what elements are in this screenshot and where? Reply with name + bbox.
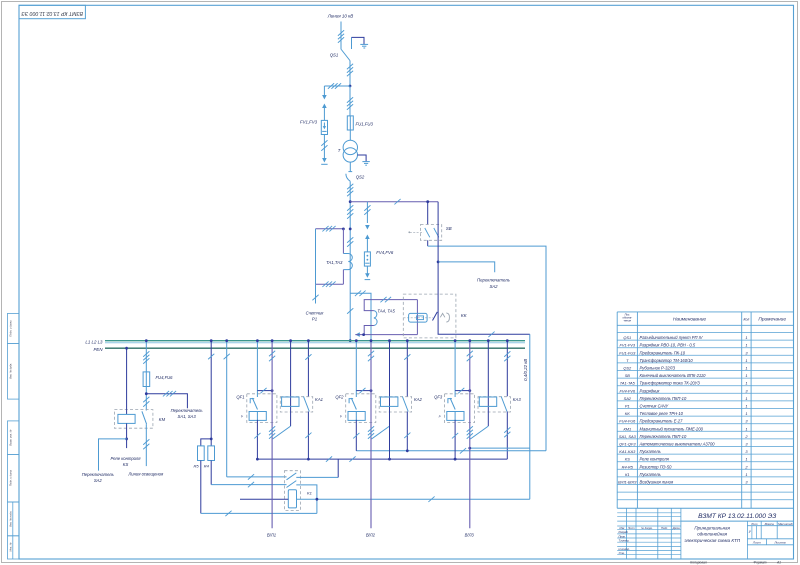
svg-text:QF1: QF1 (236, 395, 244, 400)
svg-text:Конечный выключатель ВПК-2110: Конечный выключатель ВПК-2110 (640, 373, 707, 378)
svg-text:Примечание: Примечание (758, 317, 786, 323)
svg-text:Листов: Листов (773, 541, 786, 545)
svg-text:SA1, SA3: SA1, SA3 (619, 434, 637, 439)
svg-text:В/Л3: В/Л3 (465, 533, 475, 538)
svg-text:К1: К1 (625, 472, 629, 477)
svg-text:Подп.: Подп. (661, 526, 668, 530)
svg-text:QS2: QS2 (356, 175, 365, 180)
svg-text:Подп. и дата: Подп. и дата (8, 469, 12, 486)
svg-text:В/Л2: В/Л2 (366, 533, 376, 538)
svg-text:1: 1 (745, 366, 747, 371)
svg-text:Реле контроля: Реле контроля (640, 457, 670, 462)
svg-text:Переключатель: Переключатель (477, 278, 511, 283)
svg-text:Трансформатор тока ТК-20УЗ: Трансформатор тока ТК-20УЗ (640, 381, 701, 386)
svg-text:Предохранитель Е-27: Предохранитель Е-27 (640, 419, 684, 424)
svg-text:SA2: SA2 (94, 478, 103, 483)
svg-text:1: 1 (745, 457, 747, 462)
svg-text:Разрядник: Разрядник (640, 388, 661, 393)
svg-text:KM: KM (159, 417, 166, 422)
svg-text:1: 1 (745, 343, 747, 348)
svg-text:Пускатель: Пускатель (640, 472, 661, 477)
svg-text:1: 1 (745, 381, 747, 386)
svg-text:Подп. и дата: Подп. и дата (8, 320, 12, 337)
svg-text:Переключатель ПКП-10: Переключатель ПКП-10 (640, 434, 687, 439)
svg-text:Инв. № подл.: Инв. № подл. (8, 511, 12, 527)
svg-text:Лит: Лит (750, 522, 758, 526)
svg-text:Копировал: Копировал (690, 561, 707, 565)
svg-text:Линия освещения: Линия освещения (127, 472, 164, 477)
svg-text:KA2: KA2 (414, 397, 423, 402)
svg-text:R4: R4 (204, 464, 210, 469)
svg-text:P1: P1 (312, 317, 318, 322)
svg-text:FU1,FU3: FU1,FU3 (356, 122, 374, 127)
svg-text:KA3: KA3 (513, 397, 522, 402)
svg-text:QS1: QS1 (330, 53, 339, 58)
svg-text:Счетчик: Счетчик (306, 311, 325, 316)
svg-text:KK: KK (625, 411, 631, 416)
svg-text:Тепловое реле ТРН-10: Тепловое реле ТРН-10 (640, 411, 684, 416)
svg-text:Переключатель: Переключатель (171, 408, 203, 413)
svg-text:TA1,TA3: TA1,TA3 (326, 260, 343, 265)
svg-text:FU1-FU3: FU1-FU3 (619, 350, 636, 355)
svg-text:R5: R5 (193, 464, 199, 469)
svg-text:Воздушная линия: Воздушная линия (640, 480, 674, 485)
svg-text:КМ1: КМ1 (623, 426, 631, 431)
svg-text:L1 L2 L3: L1 L2 L3 (85, 339, 103, 344)
svg-text:Реле контроля: Реле контроля (110, 456, 141, 461)
svg-text:QF1-QF3: QF1-QF3 (619, 442, 636, 447)
svg-text:1: 1 (745, 358, 747, 363)
svg-text:чение: чение (624, 320, 632, 323)
svg-text:FV1,FV3: FV1,FV3 (300, 120, 318, 125)
svg-text:Лист: Лист (627, 526, 636, 530)
svg-text:1: 1 (745, 335, 747, 340)
svg-text:В/Л1-В/Л3: В/Л1-В/Л3 (618, 480, 637, 485)
svg-text:№ докум.: № докум. (641, 526, 653, 530)
svg-text:Разъединительный пункт РП IV: Разъединительный пункт РП IV (640, 335, 704, 340)
svg-text:1: 1 (745, 404, 747, 409)
svg-text:Резистор ПЭ-50: Резистор ПЭ-50 (640, 464, 673, 469)
svg-text:FU4,FU6: FU4,FU6 (156, 375, 174, 380)
svg-text:Разраб.: Разраб. (619, 530, 629, 534)
svg-text:KS: KS (625, 457, 631, 462)
svg-text:TA4, TA5: TA4, TA5 (377, 309, 395, 314)
svg-text:Переключатель ПКП-10: Переключатель ПКП-10 (640, 396, 687, 401)
svg-text:Изм: Изм (619, 526, 624, 530)
svg-text:T: T (338, 148, 341, 153)
svg-text:Разрядник РВО-10, РВН - 0,5: Разрядник РВО-10, РВН - 0,5 (640, 343, 696, 348)
svg-text:ВЗМТ КР 13.02.11.000 ЭЗ: ВЗМТ КР 13.02.11.000 ЭЗ (698, 513, 776, 520)
svg-text:Автоматические выключатели А37: Автоматические выключатели А3700 (639, 442, 716, 447)
svg-text:K1: K1 (307, 491, 312, 496)
svg-text:KS: KS (123, 462, 129, 467)
svg-text:FV1-FV3: FV1-FV3 (620, 343, 636, 348)
svg-text:Кол: Кол (744, 318, 750, 322)
svg-text:R4-R5: R4-R5 (622, 464, 634, 469)
svg-text:В/Л1: В/Л1 (267, 533, 276, 538)
svg-text:Т.контр.: Т.контр. (619, 539, 630, 543)
svg-text:Н.контр.: Н.контр. (619, 547, 631, 551)
svg-text:Инв. № дубл.: Инв. № дубл. (8, 363, 12, 379)
svg-text:Утв.: Утв. (619, 551, 625, 555)
svg-text:Предохранитель ПК-10: Предохранитель ПК-10 (640, 350, 686, 355)
svg-text:FU4-FU6: FU4-FU6 (619, 419, 636, 424)
svg-text:ВЗМТ КР 13.02.11.000 ЭЗ: ВЗМТ КР 13.02.11.000 ЭЗ (21, 10, 83, 16)
svg-text:TA1-TA5: TA1-TA5 (620, 381, 636, 386)
svg-text:1: 1 (745, 411, 747, 416)
svg-text:QS2: QS2 (623, 366, 632, 371)
svg-text:Масса: Масса (765, 522, 774, 526)
svg-text:SA2: SA2 (489, 284, 498, 289)
svg-text:I›: I› (241, 414, 243, 418)
svg-text:P1: P1 (625, 404, 630, 409)
svg-text:PEN: PEN (93, 347, 103, 352)
svg-text:SB: SB (446, 226, 452, 231)
svg-text:Инв. №: Инв. № (8, 542, 12, 551)
svg-text:QF2: QF2 (335, 395, 344, 400)
svg-text:электрическая схема КТП: электрическая схема КТП (684, 538, 740, 543)
svg-text:FV4,FV6: FV4,FV6 (376, 250, 394, 255)
svg-text:Лист: Лист (752, 541, 761, 545)
svg-text:SA2: SA2 (624, 396, 632, 401)
svg-text:Наименование: Наименование (673, 317, 706, 323)
svg-text:1: 1 (745, 373, 747, 378)
svg-text:0,4/0,22 кВ: 0,4/0,22 кВ (523, 359, 528, 381)
svg-text:1: 1 (745, 396, 747, 401)
svg-text:Линия 10 кВ: Линия 10 кВ (327, 14, 354, 19)
svg-text:QF3: QF3 (434, 395, 443, 400)
svg-text:SB: SB (625, 373, 631, 378)
svg-text:SA1, SA3: SA1, SA3 (178, 414, 197, 419)
svg-text:I›: I› (340, 414, 342, 418)
svg-text:Формат: Формат (753, 561, 766, 565)
svg-text:Пускатель: Пускатель (640, 449, 661, 454)
svg-text:KA1: KA1 (315, 397, 323, 402)
svg-text:QS1: QS1 (623, 335, 631, 340)
svg-text:Принципиальная: Принципиальная (694, 526, 730, 531)
svg-text:Счетчик САЧУ: Счетчик САЧУ (640, 404, 669, 409)
svg-text:А1: А1 (776, 561, 781, 565)
svg-text:Масштаб: Масштаб (778, 522, 793, 526)
svg-text:I›: I› (439, 414, 441, 418)
svg-text:Рубильник Р-32ЛЗ: Рубильник Р-32ЛЗ (640, 366, 676, 371)
svg-text:1: 1 (745, 472, 747, 477)
svg-text:1: 1 (745, 426, 747, 431)
svg-text:KA1-KA3: KA1-KA3 (619, 449, 636, 454)
svg-text:Взам. инв. №: Взам. инв. № (8, 429, 12, 445)
svg-text:однолинейная: однолинейная (697, 531, 727, 537)
svg-text:Трансформатор ТМ-160/10: Трансформатор ТМ-160/10 (640, 358, 694, 363)
svg-text:Пров.: Пров. (619, 534, 626, 538)
svg-text:Переключатель: Переключатель (82, 472, 114, 477)
svg-text:Магнитный пускатель ПМЕ-200: Магнитный пускатель ПМЕ-200 (640, 426, 704, 431)
svg-text:Дата: Дата (672, 526, 680, 530)
svg-text:FV4-FV6: FV4-FV6 (620, 388, 636, 393)
